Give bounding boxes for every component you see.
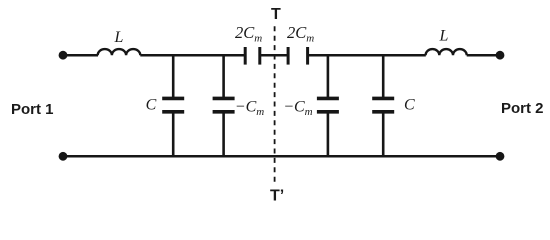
svg-text:L: L xyxy=(439,27,449,44)
wire top-right lead xyxy=(467,54,500,57)
capacitor C (right shunt) xyxy=(372,54,394,157)
svg-text:C: C xyxy=(404,97,415,114)
svg-text:L: L xyxy=(114,29,124,46)
svg-text:2Cm: 2Cm xyxy=(287,23,314,45)
wire bottom rail xyxy=(63,155,500,158)
symmetry line T-T' (dashed) xyxy=(274,26,276,183)
capacitor C (left shunt) xyxy=(162,54,184,157)
wire top rail left section xyxy=(140,54,244,57)
terminal dot Port 2 bottom xyxy=(496,152,505,161)
wire top rail right section xyxy=(308,54,426,57)
terminal dot Port 2 top xyxy=(496,51,505,60)
svg-text:Port 1: Port 1 xyxy=(11,101,54,118)
wire top-left lead xyxy=(63,54,98,57)
capacitor -Cm (right shunt) xyxy=(317,54,339,157)
svg-text:2Cm: 2Cm xyxy=(235,23,262,45)
svg-text:T: T xyxy=(271,6,281,23)
inductor L1 xyxy=(98,49,141,55)
svg-text:C: C xyxy=(146,97,157,114)
svg-text:−Cm: −Cm xyxy=(283,98,312,117)
terminal dot Port 1 bottom xyxy=(59,152,68,161)
capacitor 2Cm (left series) xyxy=(245,47,260,65)
capacitor 2Cm (right series) xyxy=(288,47,308,65)
terminal dot Port 1 top xyxy=(59,51,68,60)
capacitor -Cm (left shunt) xyxy=(213,54,235,157)
svg-text:T’: T’ xyxy=(270,187,284,204)
svg-text:Port 2: Port 2 xyxy=(501,100,544,117)
wire between series capacitors xyxy=(260,54,288,57)
svg-text:−Cm: −Cm xyxy=(235,98,264,117)
inductor L2 xyxy=(426,49,467,55)
